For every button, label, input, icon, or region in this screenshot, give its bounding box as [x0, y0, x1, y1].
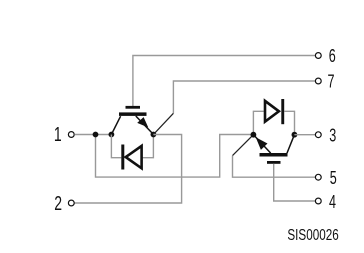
- node E1 emitter Q1: [151, 132, 157, 138]
- terminal 3: [315, 126, 336, 146]
- wire diode D1 anode: [142, 135, 154, 158]
- node C collector Q2: [292, 132, 298, 138]
- wire diode D2 cathode: [284, 111, 294, 134]
- node B collector Q1: [109, 132, 115, 138]
- terminal 7: [315, 72, 334, 92]
- terminal 6: [315, 46, 335, 66]
- wire terminal 1: [74, 134, 111, 136]
- terminal 5: [315, 168, 336, 188]
- wire diode D2 anode: [253, 111, 263, 134]
- wire gate lead Q1 to terminal 6: [133, 56, 316, 107]
- svg-text:6: 6: [329, 46, 336, 66]
- node A: [93, 132, 99, 138]
- svg-text:5: 5: [330, 168, 337, 188]
- wire gate Q2 to terminal 4: [274, 164, 316, 201]
- svg-text:7: 7: [328, 72, 335, 92]
- node E2 emitter Q2: [251, 132, 257, 138]
- wire terminal 7 to node E1: [154, 81, 316, 134]
- svg-text:3: 3: [329, 126, 336, 146]
- wire node C to terminal 3: [294, 134, 315, 136]
- diode D1: [121, 145, 141, 170]
- terminal 4: [315, 192, 336, 212]
- wire node E2 to terminal 5: [233, 135, 316, 178]
- svg-text:2: 2: [54, 193, 62, 215]
- transistor Q2 (IGBT): [253, 135, 294, 164]
- svg-text:SIS00026: SIS00026: [287, 227, 338, 244]
- wire diode D1 cathode: [111, 135, 121, 158]
- svg-text:1: 1: [54, 124, 62, 146]
- terminal 1: [54, 124, 74, 146]
- transistor Q1 (IGBT): [112, 106, 154, 134]
- terminal 2: [54, 193, 74, 215]
- svg-text:4: 4: [329, 192, 336, 212]
- wire node E1 to terminal 2: [74, 135, 181, 204]
- wire node A to node E2 rail: [96, 135, 254, 178]
- diode D2: [265, 99, 284, 124]
